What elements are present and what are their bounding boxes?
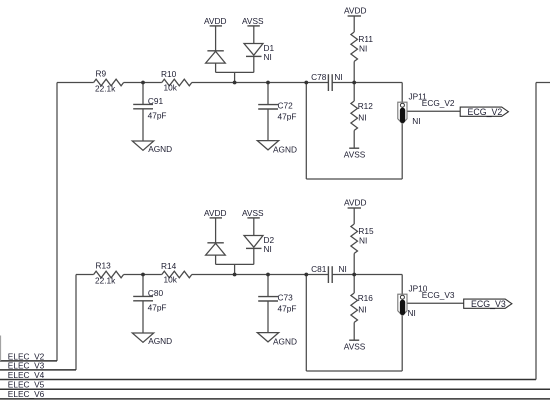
svg-text:22.1k: 22.1k <box>95 276 116 286</box>
diode D2a to AVDD <box>206 243 226 265</box>
svg-text:AVSS: AVSS <box>242 208 264 218</box>
svg-text:AGND: AGND <box>273 145 297 155</box>
svg-text:10k: 10k <box>164 275 178 285</box>
svg-text:AVDD: AVDD <box>344 6 366 16</box>
svg-text:NI: NI <box>334 72 342 82</box>
svg-text:NI: NI <box>359 236 367 246</box>
svg-text:AVDD: AVDD <box>204 208 226 218</box>
wire diode drop to signal <box>234 264 236 274</box>
svg-text:C73: C73 <box>278 292 294 302</box>
svg-text:NI: NI <box>412 116 420 126</box>
svg-text:C78: C78 <box>311 72 327 82</box>
power AVDD above clamp diode D1 <box>204 16 226 51</box>
wire ECG_V2 input riser from bus <box>56 83 58 361</box>
svg-text:NI: NI <box>339 264 347 274</box>
junction at C80 tap <box>141 273 145 277</box>
junction at C72 tap <box>266 81 270 85</box>
svg-text:10k: 10k <box>164 83 178 93</box>
svg-text:AVSS: AVSS <box>242 16 264 26</box>
wire next channel input <box>536 82 550 84</box>
wire R13 to R14 <box>124 274 162 276</box>
power AVSS below R16 <box>344 340 366 351</box>
ground AGND under C73 <box>257 333 297 347</box>
diode D1b to AVSS (NI) <box>244 43 274 72</box>
svg-text:47pF: 47pF <box>148 303 167 313</box>
jumper JP10 (NI) <box>398 284 428 319</box>
svg-text:ELEC_V6: ELEC_V6 <box>8 389 45 399</box>
svg-text:C72: C72 <box>278 100 294 110</box>
diode D1a to AVDD <box>206 51 226 73</box>
capacitor C73 47pF <box>258 275 296 333</box>
svg-text:ECG_V2: ECG_V2 <box>468 107 503 117</box>
svg-text:R12: R12 <box>358 101 374 111</box>
wire ELEC_V2 bus <box>0 360 57 362</box>
svg-text:R9: R9 <box>96 69 107 79</box>
diode D2b to AVSS (NI) <box>244 235 274 264</box>
wire ELEC_V4 bus <box>0 379 536 381</box>
wire guard ring right (below jumper) <box>401 124 403 179</box>
ground AGND under C91 <box>132 141 172 154</box>
svg-text:47pF: 47pF <box>278 303 297 313</box>
wire ELEC_V5 bus <box>0 388 550 390</box>
svg-text:R15: R15 <box>358 226 374 236</box>
svg-text:47pF: 47pF <box>278 111 297 121</box>
capacitor C72 47pF <box>258 83 296 141</box>
svg-text:AGND: AGND <box>273 337 297 347</box>
resistor R11 (NI) <box>351 32 373 83</box>
svg-text:22.1k: 22.1k <box>95 84 116 94</box>
svg-text:AVDD: AVDD <box>344 198 366 208</box>
jumper JP11 (NI) <box>398 92 427 127</box>
svg-text:AVDD: AVDD <box>204 16 226 26</box>
wire ELEC_V4 riser to next channel <box>535 83 537 380</box>
svg-text:ELEC_V5: ELEC_V5 <box>8 380 45 390</box>
power AVSS above clamp diode D1 <box>242 16 264 44</box>
resistor R10 10k <box>161 69 192 93</box>
svg-text:ECG_V2: ECG_V2 <box>422 98 455 108</box>
resistor R13 22.1k <box>94 261 124 286</box>
svg-text:ELEC_V3: ELEC_V3 <box>8 361 45 371</box>
wire corner down to jumper JP10 <box>401 275 403 296</box>
wire C78 to jumper corner <box>332 82 402 84</box>
svg-text:AGND: AGND <box>148 336 172 346</box>
junction at C91 tap <box>141 81 145 85</box>
wire ELEC_V3 bus <box>0 369 76 371</box>
svg-text:ECG_V3: ECG_V3 <box>422 290 455 300</box>
resistor R15 (NI) <box>351 224 374 275</box>
junction at R11/R12 <box>352 81 356 85</box>
resistor R14 10k <box>161 261 192 285</box>
svg-text:ECG_V3: ECG_V3 <box>471 299 506 309</box>
wire jumper to port <box>407 110 460 112</box>
svg-text:R14: R14 <box>161 261 177 271</box>
ground AGND under C72 <box>257 141 297 155</box>
svg-text:C80: C80 <box>148 288 164 298</box>
svg-text:ELEC_V4: ELEC_V4 <box>8 370 45 380</box>
svg-text:NI: NI <box>358 305 366 315</box>
junction at guard ring <box>304 81 308 85</box>
svg-text:C91: C91 <box>148 96 164 106</box>
svg-text:NI: NI <box>359 44 367 54</box>
resistor R16 (NI) <box>351 275 373 341</box>
wire R9 to R10 <box>124 82 162 84</box>
power AVDD above R11 <box>344 6 366 33</box>
capacitor C81 (series, NI) <box>311 264 347 283</box>
wire jumper to port <box>407 302 463 304</box>
capacitor C91 47pF <box>133 83 166 142</box>
wire stub at left margin <box>0 336 2 361</box>
wire corner down to jumper JP11 <box>401 83 403 104</box>
power AVDD above R15 <box>344 198 366 225</box>
wire guard ring bottom <box>306 370 402 372</box>
ground AGND under C80 <box>132 333 172 346</box>
wire R14 to series cap C81 <box>192 274 329 276</box>
svg-text:R11: R11 <box>358 34 373 44</box>
wire ECG_V3 input riser from bus <box>75 275 77 370</box>
junction at C73 tap <box>266 273 270 277</box>
wire R10 to series cap C78 <box>192 82 329 84</box>
svg-text:AVSS: AVSS <box>344 341 366 351</box>
port ECG_V2 <box>460 107 508 117</box>
junction at diode drop <box>233 273 237 277</box>
svg-text:NI: NI <box>408 308 416 318</box>
svg-text:R10: R10 <box>161 69 177 79</box>
power AVSS above clamp diode D2 <box>242 208 264 236</box>
svg-text:47pF: 47pF <box>148 111 167 121</box>
wire diode pair connector <box>216 263 254 265</box>
junction at R15/R16 <box>352 273 356 277</box>
resistor R9 22.1k <box>94 69 124 94</box>
junction at guard ring <box>304 273 308 277</box>
svg-text:C81: C81 <box>311 264 327 274</box>
svg-text:R13: R13 <box>96 261 112 271</box>
wire guard ring left <box>305 275 307 372</box>
wire input to R13 <box>76 274 94 276</box>
capacitor C78 (series, NI) <box>311 72 343 91</box>
svg-text:AGND: AGND <box>148 144 172 154</box>
wire guard ring left <box>305 83 307 180</box>
svg-text:NI: NI <box>264 244 272 254</box>
port ECG_V3 <box>464 299 512 309</box>
svg-text:NI: NI <box>264 52 272 62</box>
resistor R12 (NI) <box>351 83 373 149</box>
wire diode drop to signal <box>234 72 236 82</box>
svg-text:AVSS: AVSS <box>344 149 366 159</box>
power AVSS below R12 <box>344 148 366 159</box>
wire C81 to jumper corner <box>332 274 402 276</box>
junction at diode drop <box>233 81 237 85</box>
wire diode pair connector <box>216 71 254 73</box>
wire guard ring bottom <box>306 178 402 180</box>
capacitor C80 47pF <box>133 275 166 334</box>
svg-text:R16: R16 <box>358 293 374 303</box>
svg-text:NI: NI <box>358 113 366 123</box>
power AVDD above clamp diode D2 <box>204 208 226 243</box>
wire input to R9 <box>57 82 94 84</box>
wire guard ring right (below jumper) <box>401 316 403 371</box>
wire ELEC_V6 bus <box>0 398 550 400</box>
